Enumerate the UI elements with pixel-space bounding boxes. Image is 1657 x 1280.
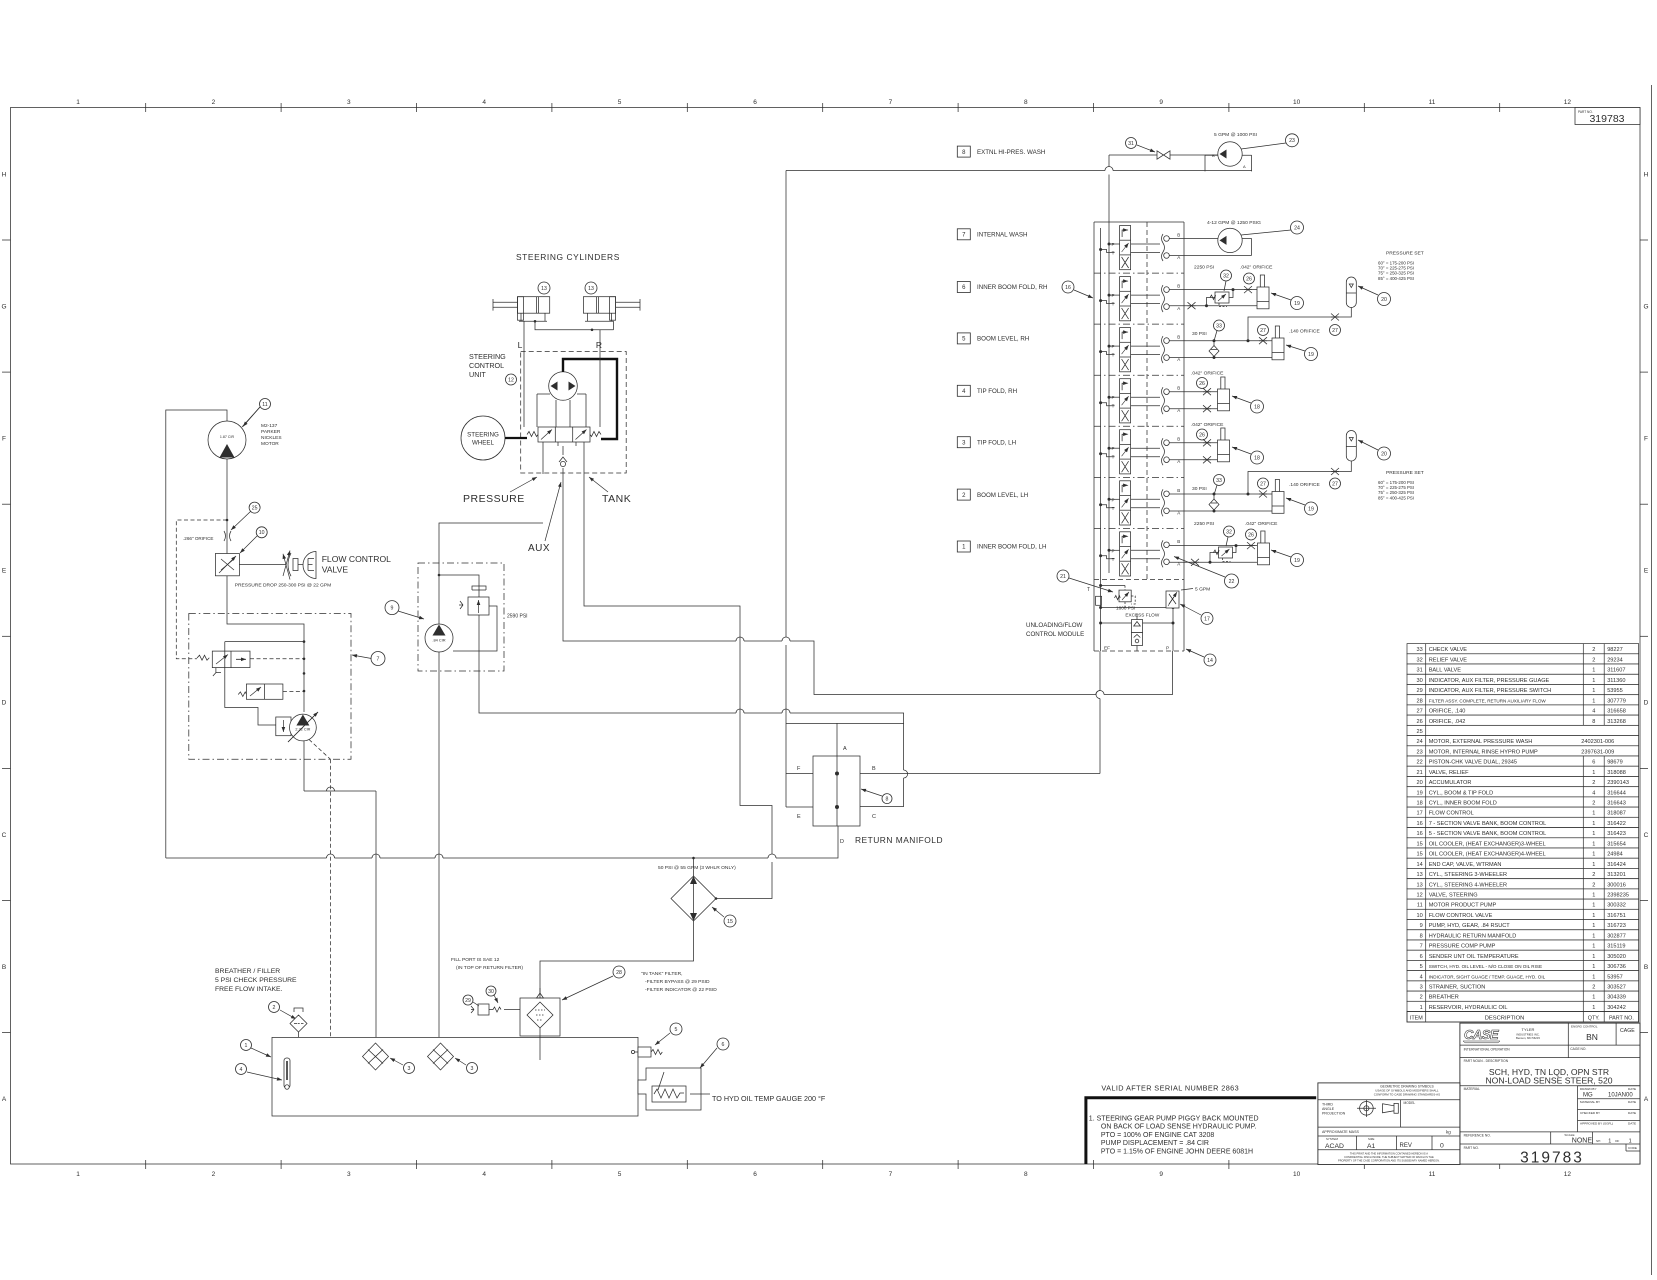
svg-text:DATE: DATE (1628, 1087, 1636, 1091)
svg-text:INNER BOOM FOLD, LH: INNER BOOM FOLD, LH (977, 544, 1046, 551)
svg-text:33: 33 (1416, 647, 1422, 653)
svg-text:19: 19 (1294, 558, 1300, 564)
svg-text:21: 21 (1416, 770, 1422, 776)
svg-text:FLOW CONTROL: FLOW CONTROL (322, 554, 391, 564)
branch to bus (225, 642, 304, 725)
svg-text:5: 5 (618, 1171, 622, 1178)
svg-text:32: 32 (1226, 529, 1232, 535)
svg-text:19: 19 (1308, 352, 1314, 358)
svg-text:16: 16 (1416, 821, 1422, 827)
svg-text:INNER BOOM FOLD, RH: INNER BOOM FOLD, RH (977, 284, 1047, 291)
svg-text:22: 22 (1416, 760, 1422, 766)
svg-text:8: 8 (886, 796, 889, 802)
svg-text:.042" ORIFICE: .042" ORIFICE (1245, 521, 1278, 527)
flow control orifice box (item 10) (215, 554, 239, 576)
svg-text:12: 12 (1564, 1171, 1572, 1178)
svg-text:A: A (1177, 306, 1180, 311)
svg-text:EXCESS FLOW: EXCESS FLOW (1125, 612, 1159, 617)
steering wheel (461, 416, 505, 460)
svg-text:T: T (1112, 251, 1115, 256)
svg-text:CONTROL MODULE: CONTROL MODULE (1026, 631, 1084, 638)
section 6 P port (1108, 294, 1111, 297)
svg-text:9: 9 (391, 605, 394, 611)
balloon 1 (241, 1040, 252, 1051)
svg-text:1: 1 (1592, 678, 1595, 684)
section 6 T port (1099, 299, 1102, 302)
svg-text:T: T (1112, 353, 1115, 358)
svg-text:kg: kg (1446, 1130, 1451, 1135)
svg-text:24: 24 (1416, 739, 1422, 745)
svg-text:DATE: DATE (1628, 1111, 1636, 1115)
pressure comp pump module dashed box (item 7) (189, 614, 351, 760)
svg-text:MOTOR, EXTERNAL PRESSURE WA: MOTOR, EXTERNAL PRESSURE WASH (1429, 739, 1533, 745)
svg-text:G: G (1643, 303, 1648, 310)
svg-text:25: 25 (252, 505, 258, 511)
section 5 T port (1099, 350, 1102, 353)
svg-text:98227: 98227 (1607, 647, 1623, 653)
bank section separator (1094, 425, 1184, 427)
svg-text:MODEL: MODEL (1404, 1101, 1416, 1105)
balloon 32 (sec6) (1221, 270, 1232, 281)
svg-text:ENGRG CONTROL: ENGRG CONTROL (1571, 1025, 1598, 1029)
svg-text:CODE: CODE (1628, 1146, 1637, 1150)
product pump 2.32 CIR (276, 717, 291, 736)
wire motor top loop (166, 410, 227, 858)
balloon 12 (506, 374, 517, 385)
svg-text:1.87 CIR: 1.87 CIR (220, 435, 235, 439)
bank T channel (1100, 228, 1102, 586)
svg-text:A: A (2, 1096, 7, 1103)
balloon 2 (269, 1002, 280, 1013)
svg-text:18: 18 (1254, 455, 1260, 461)
flow control (item 17) (1166, 591, 1179, 608)
wire aux feed (563, 478, 1173, 695)
svg-text:CAGE: CAGE (1620, 1028, 1635, 1034)
svg-text:25: 25 (1416, 729, 1422, 735)
svg-text:T: T (1112, 302, 1115, 307)
balloon 19 (sec1) (1291, 554, 1304, 567)
svg-text:P: P (1111, 344, 1114, 349)
steering control unit dashed enclosure (item 12) (521, 352, 627, 474)
svg-text:316723: 316723 (1607, 923, 1626, 929)
svg-text:4-12 GPM @ 1250 PSIG: 4-12 GPM @ 1250 PSIG (1207, 220, 1261, 226)
svg-text:MATERIAL: MATERIAL (1464, 1087, 1480, 1091)
svg-text:TO HYD OIL TEMP GAUGE 200: TO HYD OIL TEMP GAUGE 200 °F (712, 1094, 826, 1103)
flow control valve symbol (239, 564, 286, 566)
svg-text:29: 29 (465, 998, 471, 1004)
svg-text:INTERNAL WASH: INTERNAL WASH (977, 232, 1027, 239)
circuit label 5 (957, 333, 970, 344)
svg-text:8: 8 (1592, 719, 1595, 725)
check valve sec2 (item 33) (1213, 494, 1215, 499)
svg-text:NON-LOAD SENSE STEER, 520: NON-LOAD SENSE STEER, 520 (1485, 1076, 1612, 1086)
svg-text:4: 4 (1592, 709, 1595, 715)
svg-text:30 PSI: 30 PSI (1192, 486, 1207, 492)
svg-text:B: B (1177, 437, 1180, 442)
balloon 3 right (467, 1063, 478, 1074)
svg-text:PROPERTY OF THE CASE CORPO: PROPERTY OF THE CASE CORPORATION AND ITS… (1338, 1159, 1440, 1163)
section 1 T port (1099, 554, 1102, 557)
relief valve 2590 psi (468, 597, 489, 615)
svg-text:2: 2 (1592, 657, 1595, 663)
svg-text:9: 9 (1420, 923, 1423, 929)
gerotor meter circle (549, 372, 578, 401)
svg-text:5 GPM: 5 GPM (1195, 587, 1210, 593)
svg-text:P: P (1111, 548, 1114, 553)
balloon 15 (724, 915, 736, 927)
cylinder sec4 (item 18) (1221, 377, 1225, 391)
balloon 11 (260, 399, 271, 410)
section 3 T port (1099, 452, 1102, 455)
svg-text:MOTOR: MOTOR (261, 441, 279, 447)
svg-text:2: 2 (1592, 984, 1595, 990)
svg-text:EXTNL HI-PRES. WASH: EXTNL HI-PRES. WASH (977, 149, 1045, 156)
svg-text:10JAN00: 10JAN00 (1608, 1093, 1633, 1099)
svg-text:MOTOR PRODUCT PUMP: MOTOR PRODUCT PUMP (1429, 903, 1497, 909)
return manifold (item 8) (813, 756, 860, 826)
svg-text:FLOW CONTROL VALVE: FLOW CONTROL VALVE (1429, 913, 1493, 919)
svg-text:307779: 307779 (1607, 698, 1626, 704)
oil level switch (item 5) (638, 1047, 651, 1057)
wire long top return y=170.5 (786, 170, 1252, 172)
svg-text:16: 16 (1416, 831, 1422, 837)
svg-text:2402301-006: 2402301-006 (1581, 739, 1614, 745)
svg-text:BOOM LEVEL, LH: BOOM LEVEL, LH (977, 492, 1028, 499)
svg-text:P: P (1111, 446, 1114, 451)
svg-text:ACCUMULATOR: ACCUMULATOR (1429, 780, 1472, 786)
svg-text:CASE: CASE (1464, 1027, 1499, 1042)
svg-text:PRESSURE COMP PUMP: PRESSURE COMP PUMP (1429, 944, 1496, 950)
svg-text:SWITCH, HYD. OIL LEVEL - N/O C: SWITCH, HYD. OIL LEVEL - N/O CLOSE ON OI… (1429, 964, 1542, 969)
svg-text:26: 26 (1416, 719, 1422, 725)
svg-text:85° = 400-425 PSI: 85° = 400-425 PSI (1378, 495, 1414, 500)
svg-text:SCALE: SCALE (1564, 1133, 1574, 1137)
orifice sec5 (item 27) (1259, 337, 1267, 344)
svg-text:50 PSI @ 55 GPM (3 WHLR: 50 PSI @ 55 GPM (3 WHLR ONLY) (658, 865, 736, 871)
svg-text:PARKER: PARKER (261, 429, 281, 435)
svg-text:17: 17 (1416, 811, 1422, 817)
svg-text:B: B (872, 766, 876, 772)
svg-text:A1: A1 (1367, 1143, 1376, 1150)
svg-text:ANGLE: ANGLE (1322, 1107, 1335, 1111)
svg-text:318087: 318087 (1607, 811, 1626, 817)
section 3 A line (1169, 459, 1217, 461)
balloon 13 right (585, 282, 597, 294)
svg-text:.266" ORIFICE: .266" ORIFICE (183, 536, 213, 541)
balloon 20 (top) (1378, 293, 1391, 306)
cylinder hose routing wires (519, 313, 547, 321)
section 3 work port bracket (1162, 438, 1165, 465)
svg-text:1: 1 (1592, 923, 1595, 929)
balloon 17 (1201, 612, 1213, 624)
svg-text:1: 1 (1592, 954, 1595, 960)
cylinder sec3 (item 18) (1221, 428, 1225, 442)
steering cylinder left (item 13) (518, 297, 550, 314)
svg-text:1: 1 (1592, 668, 1595, 674)
circuit label 4 (957, 385, 970, 396)
comp valve 2 (246, 684, 283, 699)
svg-text:5: 5 (1420, 964, 1423, 970)
svg-text:316422: 316422 (1607, 821, 1626, 827)
svg-text:300016: 300016 (1607, 882, 1626, 888)
relief valve 1800psi (item 21) (1119, 590, 1131, 602)
valve bank outline (item 16) (1094, 221, 1184, 223)
balloon 19 (sec5) (1305, 348, 1318, 361)
balloon 27a (sec2) (1258, 478, 1269, 489)
svg-text:PRESSURE DROP 250-300 PSI: PRESSURE DROP 250-300 PSI @ 22 GPM (235, 583, 331, 589)
svg-text:(IN TOP OF RETURN FILTER): (IN TOP OF RETURN FILTER) (456, 965, 523, 971)
svg-text:5: 5 (675, 1027, 678, 1033)
svg-text:PRESSURE SET: PRESSURE SET (1386, 251, 1424, 257)
svg-text:20: 20 (1381, 297, 1387, 303)
svg-text:CYL., BOOM & TIP FOLD: CYL., BOOM & TIP FOLD (1429, 790, 1493, 796)
svg-text:PISTON-CHK VALVE DUAL, 2934: PISTON-CHK VALVE DUAL, 29345 (1429, 760, 1517, 766)
svg-text:4: 4 (1420, 974, 1423, 980)
accumulator bottom (item 20) (1346, 431, 1356, 462)
svg-text:24984: 24984 (1607, 852, 1623, 858)
balloon 32 (sec1) (1224, 526, 1235, 537)
bank section separator (1094, 527, 1184, 529)
circuit label 2 (957, 489, 970, 500)
svg-text:THIS PRINT AND THE INFORMA: THIS PRINT AND THE INFORMATION CONTAINED… (1350, 1152, 1428, 1156)
svg-text:18: 18 (1416, 801, 1422, 807)
balloon 18 (sec3) (1251, 451, 1264, 464)
bank section separator (1094, 272, 1184, 274)
svg-text:53957: 53957 (1607, 974, 1623, 980)
svg-text:PUMP, HYD, GEAR, .84 RSUCT: PUMP, HYD, GEAR, .84 RSUCT (1429, 923, 1511, 929)
notes thick border (1086, 1098, 1316, 1164)
balloon 28 (613, 966, 625, 978)
svg-text:CHECKED BY: CHECKED BY (1580, 1111, 1600, 1115)
svg-text:G: G (1, 303, 6, 310)
svg-text:11: 11 (1429, 99, 1436, 106)
svg-text:3: 3 (471, 1066, 474, 1072)
svg-text:9: 9 (1159, 1171, 1163, 1178)
wire flow box down (227, 576, 304, 712)
svg-text:CHECK VALVE: CHECK VALVE (1429, 647, 1468, 653)
svg-text:E: E (2, 568, 7, 575)
svg-text:SH: SH (1596, 1139, 1600, 1143)
balloon 30 (486, 986, 496, 996)
svg-text:303527: 303527 (1607, 984, 1626, 990)
section 5 A line (1169, 357, 1272, 359)
svg-text:APPROVED BY (SGFL): APPROVED BY (SGFL) (1580, 1122, 1613, 1126)
section 3 B line (1169, 442, 1217, 444)
section 2 A line (1169, 510, 1272, 512)
svg-text:PART NOUN - DESCRIPTION: PART NOUN - DESCRIPTION (1464, 1059, 1509, 1063)
comp valve 1 (212, 651, 250, 668)
svg-text:PTO = 100% OF ENGINE CA: PTO = 100% OF ENGINE CAT 3208 (1101, 1132, 1215, 1139)
section 5 P port (1108, 345, 1111, 348)
svg-text:30: 30 (1416, 678, 1422, 684)
orifice sec6 B (item 26) (1244, 286, 1252, 293)
oil cooler heat exchanger (item 15) (671, 876, 716, 921)
svg-text:CYL., STEERING 3-WHEELER: CYL., STEERING 3-WHEELER (1429, 872, 1507, 878)
svg-text:32: 32 (1416, 657, 1422, 663)
gear pump module dashed box (item 9) (418, 563, 504, 671)
svg-text:A: A (1243, 164, 1246, 169)
svg-text:D: D (840, 839, 844, 845)
svg-text:FREE FLOW INTAKE.: FREE FLOW INTAKE. (215, 986, 283, 993)
svg-text:INTERNATIONAL OPERATION: INTERNATIONAL OPERATION (1464, 1047, 1511, 1051)
svg-text:4: 4 (1592, 790, 1595, 796)
svg-text:27: 27 (1332, 481, 1338, 487)
steering valve spool (538, 427, 590, 442)
balloon 33 (sec2) (1214, 475, 1225, 486)
section 2 work port bracket (1162, 489, 1165, 516)
svg-text:FLOW CONTROL: FLOW CONTROL (1429, 811, 1474, 817)
svg-text:300332: 300332 (1607, 903, 1626, 909)
wire bottom return y=858 (166, 826, 838, 858)
svg-text:B: B (1177, 284, 1180, 289)
bank P channel (1108, 155, 1110, 573)
svg-text:H: H (1644, 171, 1649, 178)
svg-text:"IN TANK" FILTER,: "IN TANK" FILTER, (641, 971, 683, 977)
svg-text:T: T (1087, 587, 1090, 593)
svg-text:8: 8 (1024, 99, 1028, 106)
svg-text:.140 ORIFICE: .140 ORIFICE (1289, 482, 1320, 488)
svg-text:2398235: 2398235 (1607, 893, 1629, 899)
svg-text:1: 1 (245, 1043, 248, 1049)
svg-text:1: 1 (1592, 974, 1595, 980)
valve section 1 spool (1120, 532, 1131, 576)
svg-text:FILL PORT IS SAE 12: FILL PORT IS SAE 12 (451, 957, 500, 963)
svg-text:STEERING: STEERING (467, 432, 499, 439)
svg-text:2: 2 (1592, 882, 1595, 888)
svg-text:26: 26 (1246, 276, 1252, 282)
svg-text:2590 PSI: 2590 PSI (507, 614, 528, 620)
svg-text:DATE: DATE (1628, 1100, 1636, 1104)
part number box 319783 (1575, 108, 1640, 125)
relief valve sec1 (item 32) (1219, 547, 1233, 558)
svg-text:1: 1 (1592, 903, 1595, 909)
svg-text:QTY.: QTY. (1588, 1016, 1600, 1022)
check valve stack (item 22 group) (1132, 620, 1143, 633)
svg-text:2250 PSI: 2250 PSI (1194, 265, 1214, 271)
balloon 22 (1225, 574, 1239, 588)
svg-text:304339: 304339 (1607, 995, 1626, 1001)
svg-text:7: 7 (889, 1171, 893, 1178)
balloon 27b (sec5) (1330, 325, 1341, 336)
svg-text:27: 27 (1416, 709, 1422, 715)
svg-text:C: C (2, 832, 7, 839)
svg-text:1: 1 (1592, 913, 1595, 919)
svg-text:15: 15 (1416, 841, 1422, 847)
svg-text:313268: 313268 (1607, 719, 1626, 725)
svg-text:6: 6 (722, 1042, 725, 1048)
svg-text:B: B (1177, 488, 1180, 493)
orifice sec2 (item 27) (1259, 491, 1267, 498)
svg-text:53955: 53955 (1607, 688, 1623, 694)
balloon 20 (bottom) (1378, 447, 1391, 460)
section 1 B line (1169, 545, 1257, 547)
relief valve sec6 (item 32) (1215, 292, 1229, 303)
svg-text:PTO = 1.15% OF ENGINE JOH: PTO = 1.15% OF ENGINE JOHN DEERE 6081H (1101, 1148, 1253, 1155)
svg-text:7: 7 (1420, 944, 1423, 950)
svg-text:31: 31 (1128, 141, 1134, 147)
svg-text:23: 23 (1289, 138, 1295, 144)
svg-text:ORIFICE, .140: ORIFICE, .140 (1429, 709, 1466, 715)
accumulator top line (1248, 308, 1351, 341)
extnl wash line (1109, 154, 1218, 156)
section 6 work port bracket (1162, 285, 1165, 312)
svg-text:28: 28 (1416, 698, 1422, 704)
svg-text:2: 2 (212, 99, 216, 106)
section 3 P port (1108, 447, 1111, 450)
orifice sec1 B (item 26) (1247, 542, 1255, 549)
pump 9 wires (439, 523, 543, 624)
svg-text:2: 2 (1592, 647, 1595, 653)
svg-text:INDICATOR, AUX FILTER, PRES: INDICATOR, AUX FILTER, PRESSURE GUAGE (1429, 678, 1550, 684)
svg-text:6: 6 (753, 1171, 757, 1178)
svg-text:13: 13 (588, 286, 594, 292)
svg-text:6: 6 (1420, 954, 1423, 960)
svg-text:1: 1 (1629, 1139, 1632, 1145)
svg-text:MATERIAL BY: MATERIAL BY (1580, 1100, 1600, 1104)
svg-text:F: F (2, 436, 6, 443)
svg-text:20: 20 (1416, 780, 1422, 786)
svg-text:A: A (1644, 1096, 1649, 1103)
svg-text:PUMP DISPLACEMENT = .84 CI: PUMP DISPLACEMENT = .84 CIR (1101, 1140, 1209, 1147)
svg-text:B: B (1644, 964, 1648, 971)
balloon 3 left (404, 1063, 415, 1074)
svg-text:2: 2 (212, 1171, 216, 1178)
svg-text:E: E (797, 814, 801, 820)
svg-text:2.32 CIR: 2.32 CIR (295, 728, 310, 732)
svg-text:12: 12 (1416, 893, 1422, 899)
svg-text:4: 4 (482, 1171, 486, 1178)
section 6 A line (1169, 305, 1257, 307)
svg-text:WHEEL: WHEEL (472, 440, 495, 447)
bank section separator (1094, 323, 1184, 325)
svg-text:13: 13 (541, 286, 547, 292)
svg-text:1: 1 (1592, 770, 1595, 776)
section 6 B line (1169, 289, 1257, 291)
svg-text:-FILTER BYPASS @ 29 PSID: -FILTER BYPASS @ 29 PSID (645, 979, 710, 985)
svg-text:1: 1 (1592, 1005, 1595, 1011)
svg-text:PRESSURE: PRESSURE (463, 493, 525, 505)
bank section separator (1094, 476, 1184, 478)
svg-text:15: 15 (727, 919, 733, 925)
balloon 24 (1291, 221, 1304, 234)
svg-text:7 - SECTION VALVE BANK, BOOM C: 7 - SECTION VALVE BANK, BOOM CONTROL (1429, 821, 1547, 827)
svg-text:2: 2 (273, 1005, 276, 1011)
svg-text:E: E (1644, 568, 1649, 575)
circuit label 7 (957, 229, 970, 240)
svg-text:C: C (872, 814, 876, 820)
svg-text:DRAWN BY: DRAWN BY (1580, 1087, 1597, 1091)
svg-text:1: 1 (1592, 995, 1595, 1001)
balloon 33 (sec5) (1214, 320, 1225, 331)
pressure switch (items 29,30) (478, 1004, 489, 1015)
wire tank line (584, 474, 772, 899)
svg-text:BN: BN (1586, 1032, 1598, 1042)
balloon 5 (670, 1023, 682, 1035)
svg-text:11: 11 (262, 402, 267, 408)
temp sender (item 6) (638, 1068, 701, 1110)
sight gauge (item 4) (284, 1058, 290, 1088)
svg-text:THIRD: THIRD (1322, 1103, 1333, 1107)
svg-text:5 - SECTION VALVE BANK, BOOM C: 5 - SECTION VALVE BANK, BOOM CONTROL (1429, 831, 1547, 837)
section 5 B line (1169, 340, 1272, 342)
svg-text:316424: 316424 (1607, 862, 1626, 868)
svg-text:306736: 306736 (1607, 964, 1626, 970)
svg-text:OF: OF (1615, 1139, 1619, 1143)
circuit label 8 (957, 146, 970, 157)
svg-text:B: B (1212, 153, 1215, 158)
svg-text:33: 33 (1216, 323, 1222, 329)
svg-text:15: 15 (1416, 852, 1422, 858)
